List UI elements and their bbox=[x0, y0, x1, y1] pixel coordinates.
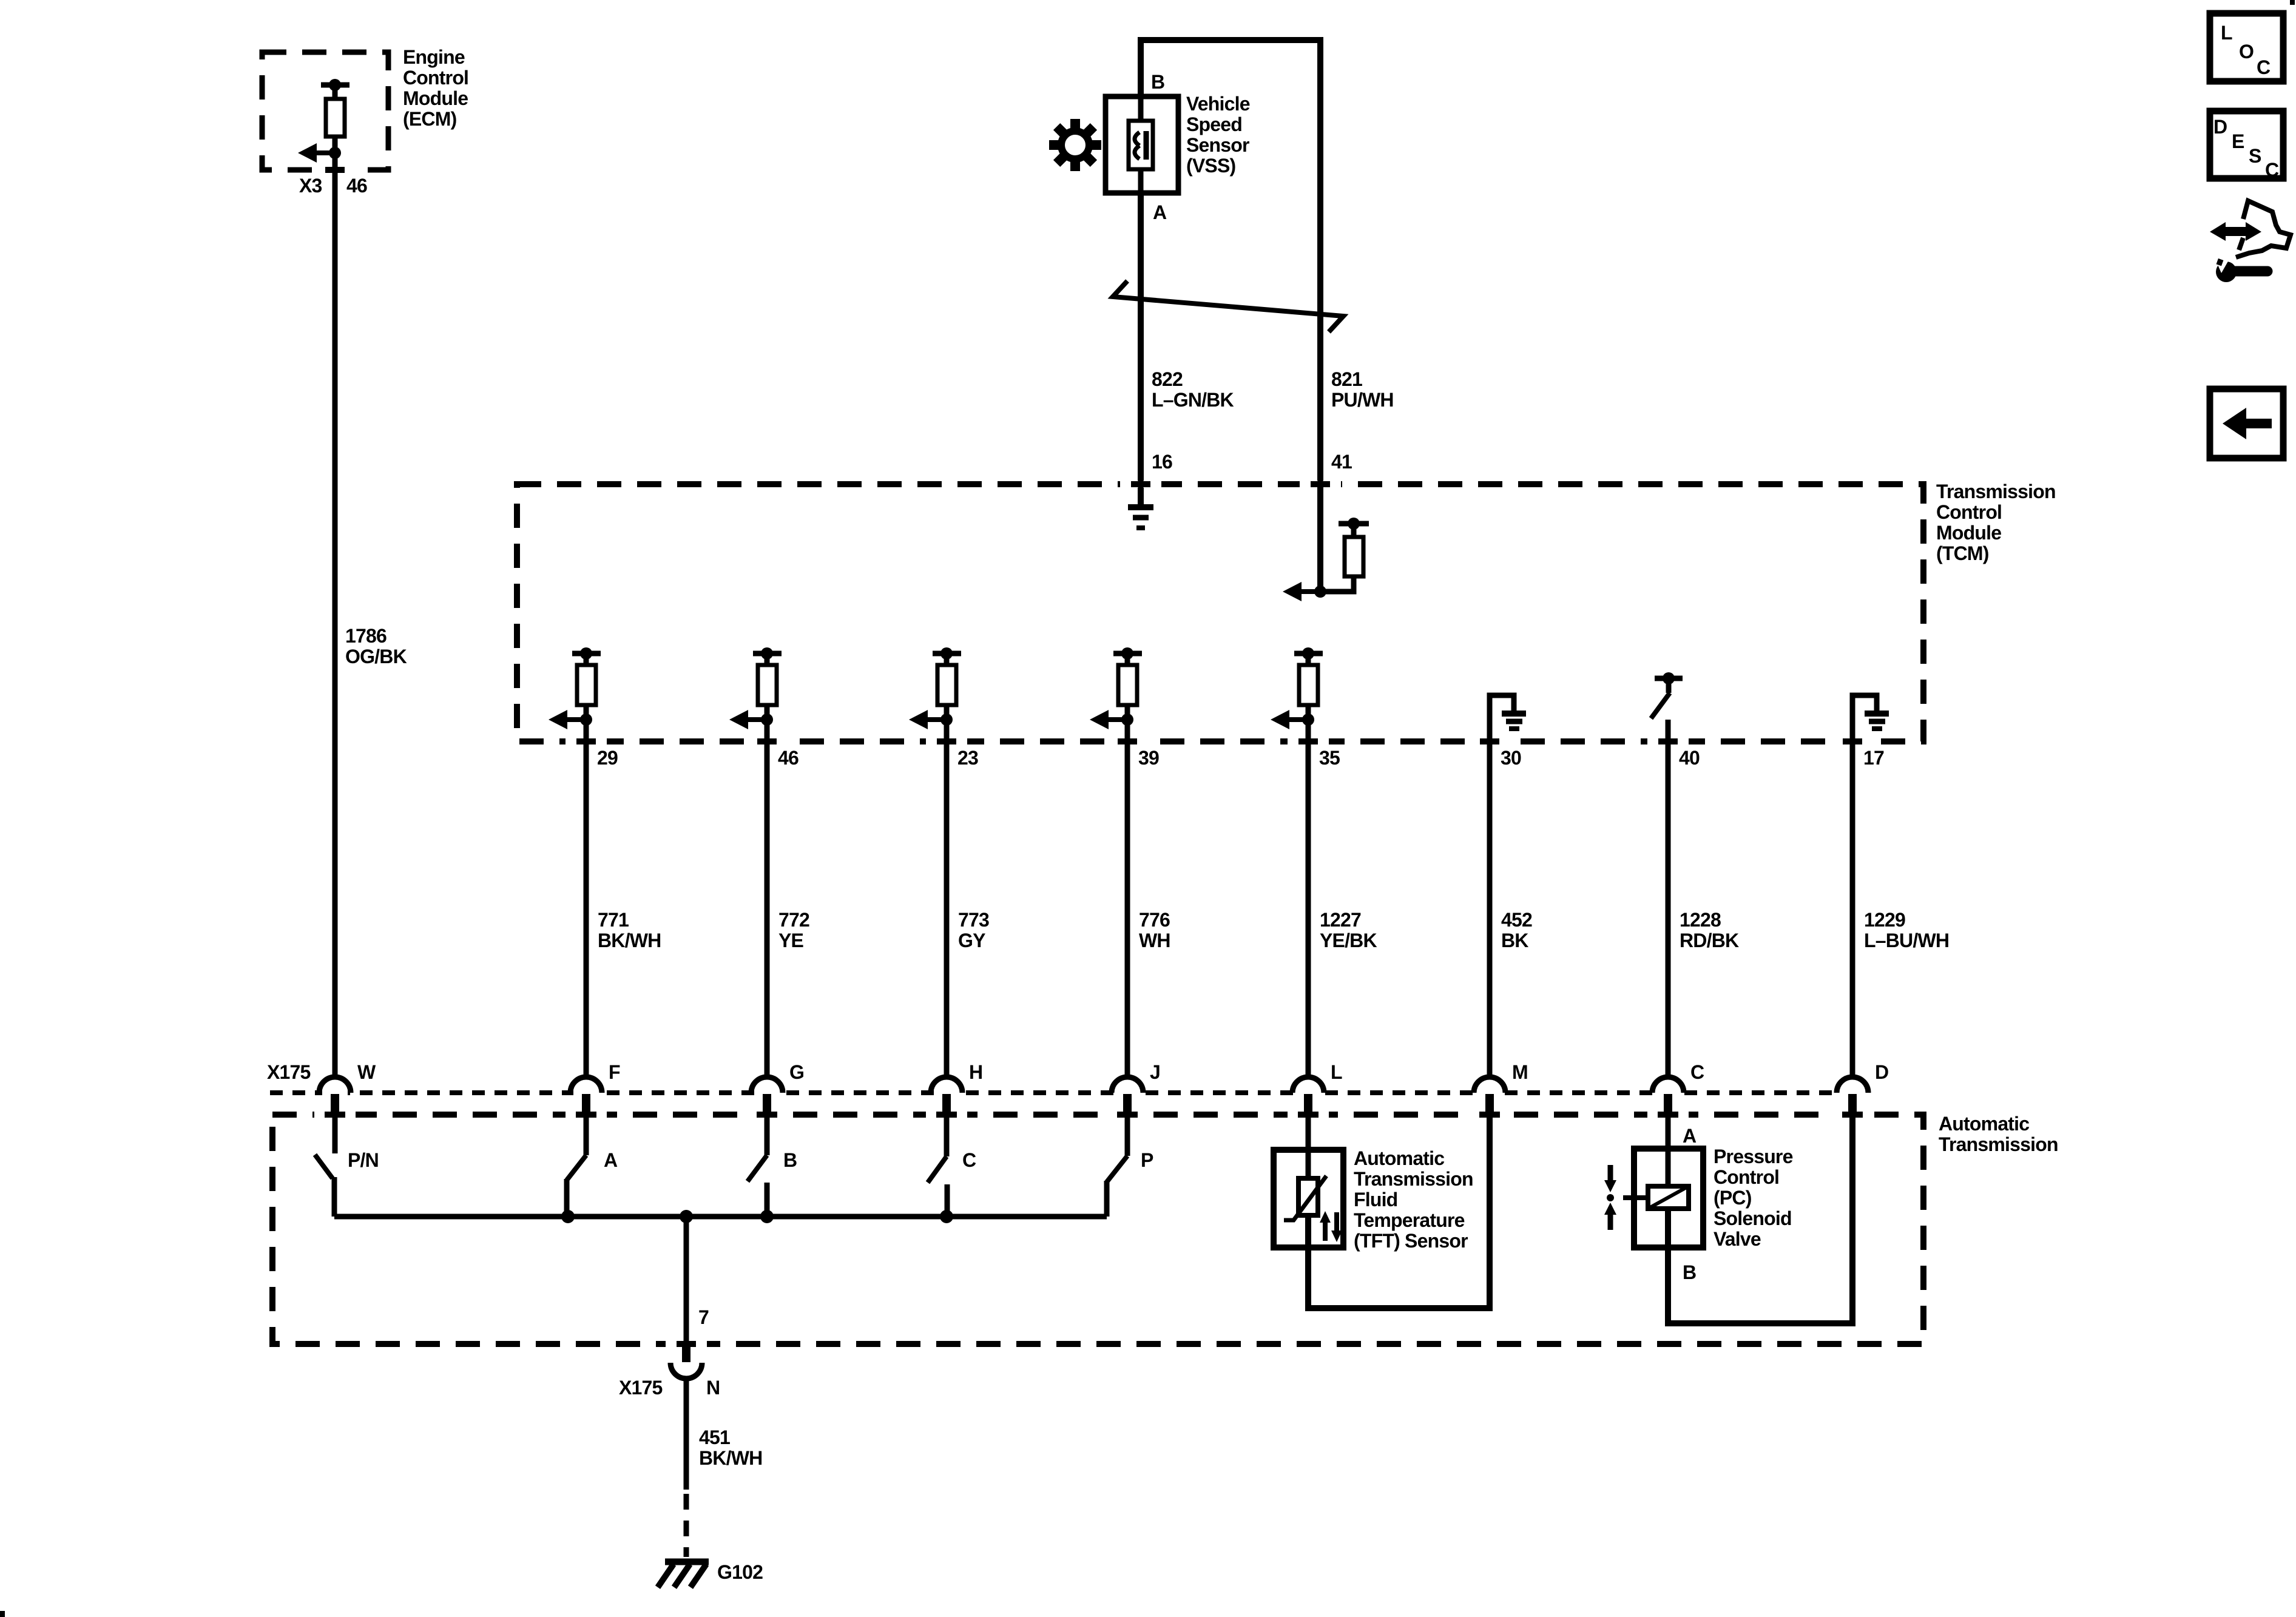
svg-text:P: P bbox=[1141, 1149, 1153, 1171]
svg-text:W: W bbox=[357, 1061, 376, 1083]
connector X175 dotted separation line bbox=[270, 1090, 1838, 1095]
wire TCM pin 39 down to X175 bbox=[1125, 720, 1130, 1077]
wire 7 from bus to X175 N bbox=[684, 1217, 689, 1346]
svg-text:(TFT) Sensor: (TFT) Sensor bbox=[1354, 1230, 1468, 1252]
resistor TCM pin 35 pull-up bbox=[1271, 647, 1323, 729]
svg-text:773: 773 bbox=[958, 909, 989, 931]
connector X175 terminal J bbox=[1107, 1061, 1160, 1118]
ECM signal junction + left arrow bbox=[298, 143, 341, 163]
range switch common bus wire bbox=[334, 1214, 1107, 1220]
wire TCM pin 17 down to X175 bbox=[1850, 741, 1855, 1077]
svg-text:L–GN/BK: L–GN/BK bbox=[1152, 389, 1234, 411]
svg-text:G102: G102 bbox=[717, 1561, 763, 1583]
connector X175 terminal F bbox=[566, 1061, 620, 1118]
svg-text:1786: 1786 bbox=[345, 625, 387, 647]
svg-text:1228: 1228 bbox=[1680, 909, 1721, 931]
svg-text:A: A bbox=[604, 1149, 618, 1171]
twisted pair slash bbox=[1113, 281, 1343, 332]
wire 451 BK/WH bbox=[684, 1377, 689, 1490]
svg-text:A: A bbox=[1683, 1125, 1697, 1147]
connector X175 terminal H bbox=[926, 1061, 982, 1118]
TFT sensor box bbox=[1274, 1150, 1343, 1247]
svg-text:L: L bbox=[2221, 22, 2232, 44]
connector X175 terminal M bbox=[1469, 1061, 1528, 1118]
svg-text:46: 46 bbox=[346, 175, 367, 197]
ticks at TCM top edge pins 16 and 41 bbox=[1120, 481, 1161, 488]
LOC button box bbox=[2210, 13, 2283, 81]
connector X175 terminal D bbox=[1832, 1061, 1888, 1118]
svg-text:BK/WH: BK/WH bbox=[598, 930, 661, 951]
VSS internal wire segments bbox=[1138, 96, 1144, 124]
svg-text:L–BU/WH: L–BU/WH bbox=[1864, 930, 1949, 951]
svg-text:X175: X175 bbox=[267, 1061, 311, 1083]
back arrow bbox=[2223, 408, 2272, 439]
repair/tools icon: part outline bbox=[2236, 201, 2291, 257]
svg-text:46: 46 bbox=[778, 747, 799, 769]
repair/tools icon: wrench bbox=[2214, 257, 2267, 282]
svg-text:821: 821 bbox=[1331, 368, 1362, 390]
TCM pin 40 internal switch bbox=[1651, 672, 1683, 718]
svg-text:D: D bbox=[2213, 116, 2227, 138]
svg-text:H: H bbox=[969, 1061, 982, 1083]
svg-text:Engine: Engine bbox=[403, 46, 465, 68]
wire TCM pin 40 down to X175 bbox=[1666, 720, 1671, 1077]
DESC button box bbox=[2210, 111, 2283, 178]
PC solenoid left pilot line bbox=[1623, 1195, 1648, 1200]
svg-text:772: 772 bbox=[778, 909, 809, 931]
TFT variation arrows bbox=[1320, 1211, 1342, 1242]
PC solenoid box bbox=[1634, 1149, 1703, 1247]
connector X175 terminal G bbox=[746, 1061, 804, 1118]
svg-text:(ECM): (ECM) bbox=[403, 108, 457, 130]
back arrow button box bbox=[2210, 389, 2283, 458]
svg-text:N: N bbox=[706, 1377, 720, 1399]
svg-text:29: 29 bbox=[597, 747, 618, 769]
svg-text:A: A bbox=[1153, 201, 1167, 223]
svg-text:39: 39 bbox=[1138, 747, 1159, 769]
wire 1786 from ECM pin X3-46 down to X175 W bbox=[333, 157, 338, 1077]
svg-text:Solenoid: Solenoid bbox=[1714, 1207, 1792, 1229]
VSS sensor element rect bbox=[1129, 121, 1153, 169]
connector X175 terminal W bbox=[314, 1061, 376, 1118]
svg-text:B: B bbox=[783, 1149, 797, 1171]
svg-text:S: S bbox=[2249, 145, 2261, 167]
svg-text:16: 16 bbox=[1152, 451, 1172, 473]
TFT thermistor rect bbox=[1298, 1178, 1318, 1215]
svg-text:Automatic: Automatic bbox=[1354, 1147, 1444, 1169]
svg-text:WH: WH bbox=[1139, 930, 1170, 951]
svg-text:Automatic: Automatic bbox=[1939, 1113, 2029, 1135]
svg-text:GY: GY bbox=[958, 930, 985, 951]
svg-text:Control: Control bbox=[1714, 1166, 1779, 1188]
switch P (closed) bbox=[1107, 1115, 1127, 1217]
TCM pin 30 internal ground bbox=[1490, 695, 1526, 741]
svg-text:M: M bbox=[1512, 1061, 1528, 1083]
Transmission Control Module (TCM) dashed box bbox=[517, 484, 1923, 741]
svg-text:B: B bbox=[1151, 71, 1164, 93]
VSS top loop wire (B to pin 41 wire) bbox=[1141, 40, 1320, 487]
svg-text:35: 35 bbox=[1319, 747, 1340, 769]
svg-text:(TCM): (TCM) bbox=[1936, 542, 1989, 564]
svg-text:YE: YE bbox=[778, 930, 804, 951]
svg-text:B: B bbox=[1683, 1261, 1696, 1283]
svg-text:23: 23 bbox=[957, 747, 978, 769]
switch B (open) bbox=[748, 1115, 767, 1217]
repair/tools icon: double arrow bbox=[2210, 222, 2261, 241]
svg-text:J: J bbox=[1150, 1061, 1160, 1083]
svg-text:C: C bbox=[2257, 56, 2271, 78]
PC pressure arrows bbox=[1604, 1165, 1616, 1230]
wire TCM pin 29 down to X175 bbox=[584, 720, 589, 1077]
svg-text:Fluid: Fluid bbox=[1354, 1189, 1397, 1210]
resistor TCM pin 29 pull-up bbox=[549, 647, 601, 729]
svg-text:776: 776 bbox=[1139, 909, 1170, 931]
svg-text:C: C bbox=[962, 1149, 976, 1171]
svg-text:(PC): (PC) bbox=[1714, 1187, 1752, 1209]
svg-text:RD/BK: RD/BK bbox=[1680, 930, 1739, 951]
wire from X175 L into TFT sensor bbox=[1306, 1115, 1311, 1178]
Engine Control Module (ECM) dashed box bbox=[262, 52, 388, 170]
wire TCM pin 30 down to X175 bbox=[1487, 741, 1493, 1077]
svg-text:Transmission: Transmission bbox=[1939, 1133, 2058, 1155]
resistor inside ECM bbox=[326, 99, 345, 137]
svg-text:Transmission: Transmission bbox=[1936, 481, 2056, 502]
svg-text:YE/BK: YE/BK bbox=[1320, 930, 1377, 951]
svg-text:OG/BK: OG/BK bbox=[345, 646, 407, 667]
svg-text:BK/WH: BK/WH bbox=[699, 1447, 762, 1469]
resistor TCM pin 46 pull-up bbox=[729, 647, 782, 729]
wire resistor to junction bbox=[333, 137, 338, 157]
svg-text:X175: X175 bbox=[619, 1377, 663, 1399]
VSS sensor core bar bbox=[1144, 131, 1149, 160]
svg-text:1229: 1229 bbox=[1864, 909, 1905, 931]
resistor TCM pin 23 pull-up bbox=[909, 647, 961, 729]
signal ground symbol at TCM pin 16 bbox=[1128, 507, 1153, 528]
svg-text:P/N: P/N bbox=[348, 1149, 379, 1171]
svg-text:F: F bbox=[609, 1061, 620, 1083]
svg-text:771: 771 bbox=[598, 909, 629, 931]
svg-text:C: C bbox=[2265, 159, 2279, 181]
svg-text:Control: Control bbox=[1936, 501, 2002, 523]
PC solenoid coil rect with diagonal bbox=[1648, 1186, 1689, 1209]
svg-text:40: 40 bbox=[1679, 747, 1700, 769]
wire TCM pin 35 down to X175 bbox=[1306, 720, 1311, 1077]
svg-text:452: 452 bbox=[1501, 909, 1532, 931]
wire TCM pin 46 down to X175 bbox=[765, 720, 770, 1077]
resistor TCM pin 39 pull-up bbox=[1090, 647, 1142, 729]
svg-text:Pressure: Pressure bbox=[1714, 1146, 1793, 1167]
svg-text:D: D bbox=[1875, 1061, 1888, 1083]
svg-text:7: 7 bbox=[698, 1306, 709, 1328]
svg-text:Valve: Valve bbox=[1714, 1228, 1761, 1250]
connector X175 terminal L bbox=[1288, 1061, 1342, 1118]
pull-up resistor and signal arrow at TCM pin 41 bbox=[1283, 484, 1369, 601]
svg-text:G: G bbox=[789, 1061, 804, 1083]
repair/tools icon: stub bbox=[2239, 238, 2243, 250]
wire 822 from VSS A down to TCM pin 16 bbox=[1138, 193, 1144, 507]
svg-text:C: C bbox=[1690, 1061, 1704, 1083]
svg-text:Module: Module bbox=[403, 87, 468, 109]
svg-text:Speed: Speed bbox=[1186, 113, 1242, 135]
PC bottom return wire to X175 D bbox=[1668, 1115, 1852, 1323]
svg-text:Vehicle: Vehicle bbox=[1186, 93, 1250, 115]
svg-text:E: E bbox=[2232, 130, 2244, 152]
switch P/N bbox=[315, 1115, 335, 1217]
dashed continuation of ground wire bbox=[684, 1494, 689, 1557]
page corner artifacts bbox=[0, 1611, 5, 1617]
svg-text:Transmission: Transmission bbox=[1354, 1168, 1473, 1190]
gear icon bbox=[1049, 119, 1101, 171]
switch C (open) bbox=[928, 1115, 947, 1217]
TFT thermistor strike line bbox=[1284, 1176, 1326, 1220]
svg-text:41: 41 bbox=[1331, 451, 1352, 473]
svg-text:(VSS): (VSS) bbox=[1186, 155, 1235, 177]
ECM internal voltage T-bar node bbox=[321, 79, 349, 101]
TFT bottom return wire to X175 M bbox=[1308, 1115, 1490, 1308]
svg-text:BK: BK bbox=[1501, 930, 1528, 951]
connector X175 terminal C bbox=[1647, 1061, 1704, 1118]
TCM pin 17 internal ground bbox=[1852, 695, 1889, 741]
svg-text:1227: 1227 bbox=[1320, 909, 1361, 931]
svg-text:Temperature: Temperature bbox=[1354, 1209, 1465, 1231]
wire from X175 C into PC solenoid terminal A bbox=[1666, 1115, 1671, 1188]
bus junction dots bbox=[561, 1210, 953, 1223]
svg-text:PU/WH: PU/WH bbox=[1331, 389, 1394, 411]
svg-text:O: O bbox=[2239, 41, 2254, 62]
svg-text:X3: X3 bbox=[299, 175, 322, 197]
ground G102 chassis symbol bbox=[658, 1562, 709, 1587]
svg-text:451: 451 bbox=[699, 1426, 730, 1448]
VSS sensor coil arcs bbox=[1135, 132, 1140, 159]
svg-text:Sensor: Sensor bbox=[1186, 134, 1249, 156]
wire TCM pin 23 down to X175 bbox=[944, 720, 950, 1077]
switch A (closed) bbox=[567, 1115, 586, 1217]
svg-text:30: 30 bbox=[1501, 747, 1521, 769]
svg-text:Module: Module bbox=[1936, 522, 2001, 544]
Automatic Transmission dashed box bbox=[272, 1115, 1923, 1344]
connector X175 terminal N bbox=[670, 1345, 702, 1379]
Vehicle Speed Sensor box bbox=[1106, 96, 1178, 193]
svg-text:17: 17 bbox=[1863, 747, 1884, 769]
svg-text:L: L bbox=[1331, 1061, 1342, 1083]
svg-text:822: 822 bbox=[1152, 368, 1183, 390]
svg-text:Control: Control bbox=[403, 67, 468, 89]
